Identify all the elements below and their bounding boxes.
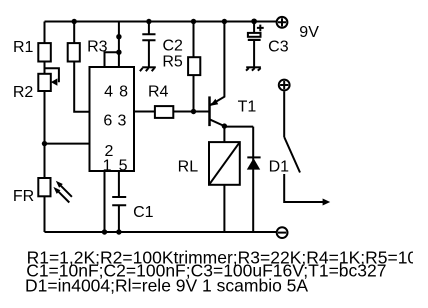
- svg-text:D1: D1: [269, 159, 290, 176]
- svg-text:3: 3: [118, 113, 127, 130]
- svg-text:5: 5: [119, 157, 128, 174]
- svg-text:R2: R2: [13, 84, 34, 101]
- svg-text:R3: R3: [87, 38, 108, 55]
- svg-text:R5: R5: [162, 54, 183, 71]
- svg-text:FR: FR: [13, 188, 34, 205]
- svg-text:8: 8: [119, 83, 128, 100]
- svg-text:9V: 9V: [299, 24, 319, 41]
- svg-text:R4: R4: [148, 84, 169, 101]
- svg-text:RL: RL: [178, 159, 199, 176]
- svg-text:T1: T1: [238, 98, 257, 115]
- svg-text:C1: C1: [133, 204, 154, 221]
- svg-text:4: 4: [104, 83, 113, 100]
- svg-text:6: 6: [103, 113, 112, 130]
- svg-text:C2: C2: [162, 38, 183, 55]
- svg-text:1: 1: [103, 157, 112, 174]
- svg-text:C3: C3: [268, 39, 289, 56]
- svg-text:D1=in4004;Rl=rele 9V 1 scambio: D1=in4004;Rl=rele 9V 1 scambio 5A: [25, 276, 308, 296]
- svg-text:R1: R1: [13, 39, 34, 56]
